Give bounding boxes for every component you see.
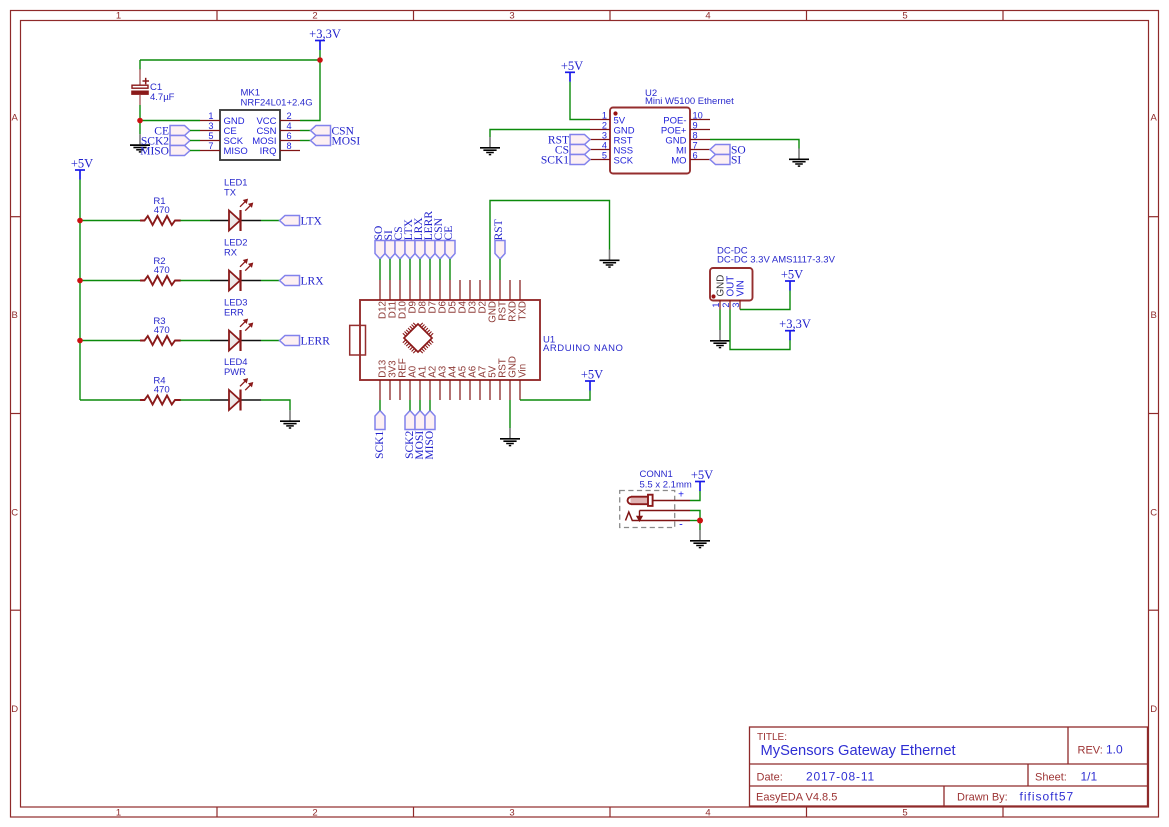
net flag CE at MK1 pin 3 <box>154 126 190 138</box>
wire rail to R1 <box>80 220 140 222</box>
U1 top pin D3 stub <box>469 280 471 300</box>
wire LERR flag to U1 D7 <box>429 259 431 280</box>
U2 pin 5 SCK stub <box>590 159 610 161</box>
net flag SO at U1 D12 <box>373 226 385 259</box>
U2 pin 10 POE- stub <box>690 119 710 121</box>
LED LED4 PWR <box>210 379 261 411</box>
U1 top pin D5 stub <box>449 280 451 300</box>
net flag SCK2 at MK1 pin 5 <box>141 136 190 148</box>
U1 top pin D4 stub <box>459 280 461 300</box>
net flag CS at U2 pin 4 <box>555 145 590 157</box>
wire SCK2 flag to MK1 pin 5 <box>190 140 200 142</box>
U1 top pin GND stub <box>489 280 491 300</box>
wire MK1 pin 4 to CSN flag <box>300 130 311 132</box>
svg-text:LRX: LRX <box>301 276 325 288</box>
svg-text:10: 10 <box>693 110 703 120</box>
U1 bottom pin A7 stub <box>479 380 481 400</box>
svg-text:A: A <box>12 113 19 124</box>
svg-text:REV:: REV: <box>1078 745 1103 757</box>
wire U1 pin to SCK2 flag <box>409 400 411 411</box>
U1 bottom pin Vin stub <box>519 380 521 400</box>
svg-text:SCK1: SCK1 <box>374 431 386 459</box>
net flag CSN at U1 D6 <box>433 217 445 259</box>
U1 top pin RXD stub <box>509 280 511 300</box>
svg-text:2: 2 <box>312 808 317 819</box>
wire SO flag to U1 D12 <box>379 259 381 280</box>
svg-text:1/1: 1/1 <box>1081 770 1098 784</box>
svg-text:4: 4 <box>705 808 710 819</box>
U1 top pin D6 stub <box>439 280 441 300</box>
wire +3.3V stem to junction <box>319 50 321 60</box>
U1 bottom pin A5 stub <box>459 380 461 400</box>
wire CE flag to MK1 pin 3 <box>190 130 200 132</box>
U2 pin 2 GND stub <box>590 129 610 131</box>
DC-DC pin 3 stub <box>739 300 741 310</box>
svg-text:8: 8 <box>693 130 698 140</box>
resistor R2 leads <box>140 280 145 282</box>
wire C1 bottom to GND node <box>139 105 141 121</box>
svg-text:5: 5 <box>208 131 213 141</box>
U1 bottom pin A2 stub <box>429 380 431 400</box>
junction +5V rail at y=280.5 <box>77 278 83 284</box>
svg-text:NRF24L01+2.4G: NRF24L01+2.4G <box>241 97 313 108</box>
U1 top pin D8 stub <box>419 280 421 300</box>
wire VCC node down to MK1 pin 2 <box>300 60 320 121</box>
svg-text:1: 1 <box>116 808 121 819</box>
svg-text:3: 3 <box>208 121 213 131</box>
wire U1 GND (bottom) to ground <box>509 400 511 428</box>
LED LED2 RX <box>210 260 261 292</box>
CONN1 switch contact upper <box>640 510 691 512</box>
LED LED3 ERR <box>210 320 261 352</box>
svg-text:+: + <box>678 490 684 501</box>
ground under DC-DC <box>710 330 730 348</box>
wire top rail C1 to VCC node <box>140 59 320 61</box>
junction CONN1 minus node <box>697 518 703 524</box>
net flag SI at U1 D11 <box>383 230 395 259</box>
svg-text:4: 4 <box>602 140 607 150</box>
net flag RST at U2 pin 3 <box>548 135 590 147</box>
svg-text:B: B <box>12 310 18 321</box>
svg-text:5: 5 <box>602 150 607 160</box>
U1 top pin RST stub <box>499 280 501 300</box>
svg-text:5: 5 <box>902 11 907 22</box>
wire U2 pin 8 GND to ground <box>710 140 799 149</box>
svg-text:PWR: PWR <box>224 366 246 377</box>
U1 bottom pin 5V stub <box>489 380 491 400</box>
wire R4 to LED4 <box>181 399 211 401</box>
wire +5V to U2 pin 1 <box>570 82 590 120</box>
svg-text:Drawn By:: Drawn By: <box>957 792 1008 804</box>
net flag LTX at U1 D9 <box>403 218 415 259</box>
svg-text:3: 3 <box>509 808 514 819</box>
svg-text:VIN: VIN <box>736 280 747 296</box>
wire U1 D13 to SCK1 flag <box>379 400 381 411</box>
DC-DC pin 1 stub <box>719 300 721 310</box>
net flag MISO at MK1 pin 7 <box>140 146 190 158</box>
wire rail to R2 <box>80 280 140 282</box>
MK1 pin 8 IRQ stub <box>280 150 300 152</box>
U2 pin 7 MI stub <box>690 149 710 151</box>
svg-text:2: 2 <box>721 303 731 308</box>
svg-text:4: 4 <box>287 121 292 131</box>
svg-text:LTX: LTX <box>301 216 323 228</box>
net flag SI at U2 pin 6 <box>710 155 741 167</box>
wire LED4 to ground <box>261 400 290 410</box>
MK1 pin 4 CSN stub <box>280 130 300 132</box>
U1 bottom pin A3 stub <box>439 380 441 400</box>
wire DC-DC GND to ground <box>719 310 721 331</box>
svg-text:8: 8 <box>287 141 292 151</box>
U1 top pin D7 stub <box>429 280 431 300</box>
svg-text:MO: MO <box>671 155 686 166</box>
svg-text:SCK: SCK <box>614 155 634 166</box>
frame column numbers bottom <box>116 808 908 819</box>
junction +5V rail at y=220.5 <box>77 218 83 224</box>
LED LED1 TX <box>210 200 261 232</box>
wire CONN1 + to +5V <box>690 491 700 501</box>
resistor R3 470 <box>140 336 181 345</box>
svg-text:1: 1 <box>116 11 121 22</box>
net flag MISO at U1 A2 <box>424 411 436 460</box>
power flag +3.3V (top) <box>309 27 341 50</box>
svg-text:MISO: MISO <box>140 146 169 158</box>
svg-text:D: D <box>1150 704 1157 715</box>
wire rail to R4 <box>80 399 140 401</box>
junction node C1/GND <box>137 118 143 124</box>
wire CONN1 pin2 upper to node <box>690 511 700 521</box>
wire GND node down to ground <box>139 121 141 135</box>
wire U1 GND (top) to ground <box>490 201 610 281</box>
ground under C1 <box>130 134 150 152</box>
power flag +5V (U1 Vin) <box>581 368 603 391</box>
svg-text:MISO: MISO <box>224 146 248 157</box>
svg-text:2017-08-11: 2017-08-11 <box>806 770 875 784</box>
net flag LTX at LED1 <box>280 216 323 228</box>
resistor R2 470 <box>140 276 181 285</box>
CONN1 + pin <box>653 500 690 502</box>
svg-text:DC-DC 3.3V AMS1117-3.3V: DC-DC 3.3V AMS1117-3.3V <box>717 254 836 265</box>
frame column numbers top <box>116 11 908 22</box>
svg-text:470: 470 <box>154 384 170 395</box>
U1 top pin D2 stub <box>479 280 481 300</box>
U1 top pin D10 stub <box>399 280 401 300</box>
U1 top pin TXD stub <box>519 280 521 300</box>
svg-text:7: 7 <box>693 140 698 150</box>
MK1 pin 6 MOSI stub <box>280 140 300 142</box>
wire DC-DC VIN to +5V <box>740 291 790 310</box>
resistor R1 470 <box>140 216 181 225</box>
wire SI flag to U1 D11 <box>389 259 391 280</box>
svg-text:2: 2 <box>287 111 292 121</box>
net flag CS at U1 D10 <box>393 226 405 259</box>
wire LRX flag to U1 D8 <box>419 259 421 280</box>
MK1 pin 2 VCC stub <box>280 120 300 122</box>
svg-text:B: B <box>1151 310 1157 321</box>
U1 bottom pin A1 stub <box>419 380 421 400</box>
net flag LERR at LED3 <box>280 336 331 348</box>
power flag +5V (LED rail) <box>71 157 93 180</box>
U1 USB connector rectangle <box>350 325 366 355</box>
DC-DC pin 2 stub <box>729 300 731 310</box>
net flag SCK1 at U2 pin 5 <box>541 155 590 167</box>
svg-text:Date:: Date: <box>757 772 783 784</box>
resistor R3 leads <box>140 340 145 342</box>
U1 bottom pin 3V3 stub <box>389 380 391 400</box>
wire CSN flag to U1 D6 <box>439 259 441 280</box>
wire MK1 pin 6 to MOSI flag <box>300 140 311 142</box>
U1 bottom pin GND stub <box>509 380 511 400</box>
svg-text:C: C <box>1150 508 1157 519</box>
power flag +5V (U2) <box>561 59 583 82</box>
svg-text:LERR: LERR <box>301 336 331 348</box>
U2 pin 8 GND stub <box>690 139 710 141</box>
svg-text:2: 2 <box>602 120 607 130</box>
U2 pin 1 marker dot <box>613 111 617 115</box>
svg-text:RST: RST <box>493 219 505 240</box>
wire CONN1 pin2 lower to node <box>690 520 700 522</box>
net flag SCK2 at U1 A0 <box>404 411 416 459</box>
svg-text:6: 6 <box>693 150 698 160</box>
net flag LRX at LED2 <box>280 276 325 288</box>
title block <box>750 727 1148 806</box>
module MK1 NRF24L01+2.4G <box>220 110 280 160</box>
svg-text:+5V: +5V <box>781 268 803 282</box>
IC U1 ARDUINO NANO body <box>360 300 540 380</box>
svg-text:RX: RX <box>224 246 238 257</box>
power flag +5V (CONN1) <box>691 468 713 491</box>
svg-text:fifisoft57: fifisoft57 <box>1020 790 1075 804</box>
svg-text:IRQ: IRQ <box>260 146 277 157</box>
U1 bottom pin A6 stub <box>469 380 471 400</box>
frame row letters right <box>1150 113 1157 716</box>
U1 bottom pin REF stub <box>399 380 401 400</box>
ground under CONN1 <box>690 530 710 548</box>
svg-text:ARDUINO NANO: ARDUINO NANO <box>543 343 624 354</box>
svg-text:3: 3 <box>509 11 514 22</box>
wire R3 to LED3 <box>181 340 211 342</box>
svg-text:+5V: +5V <box>561 59 583 73</box>
MK1 pin 1 GND stub <box>200 120 220 122</box>
svg-text:4.7µF: 4.7µF <box>150 92 175 103</box>
junction +5V rail at y=340.5 <box>77 338 83 344</box>
svg-text:1: 1 <box>602 110 607 120</box>
svg-text:TITLE:: TITLE: <box>757 732 787 743</box>
CONN1 switch contact lower with spring <box>626 512 691 521</box>
svg-text:Mini W5100 Ethernet: Mini W5100 Ethernet <box>645 96 734 107</box>
svg-text:4: 4 <box>705 11 710 22</box>
svg-text:CE: CE <box>443 226 455 241</box>
svg-text:470: 470 <box>154 325 170 336</box>
U2 pin 9 POE+ stub <box>690 129 710 131</box>
net flag SCK1 at U1 D13 <box>374 411 386 459</box>
net flag CSN at MK1 pin 4 <box>311 126 355 138</box>
net flag LRX at U1 D8 <box>413 217 425 259</box>
svg-text:3: 3 <box>731 303 741 308</box>
MK1 pin 7 MISO stub <box>200 150 220 152</box>
svg-text:2: 2 <box>312 11 317 22</box>
svg-text:SCK1: SCK1 <box>541 155 569 167</box>
net flag SO at U2 pin 7 <box>710 145 746 157</box>
svg-text:+5V: +5V <box>581 368 603 382</box>
U2 pin 3 RST stub <box>590 139 610 141</box>
U2 pin 6 MO stub <box>690 159 710 161</box>
wire U1 Vin to +5V <box>520 391 590 401</box>
wire CONN1 minus to ground <box>699 521 701 531</box>
net flag RST at U1 RST (top) <box>493 219 505 259</box>
connector CONN1 dashed outline <box>620 491 675 528</box>
resistor R4 leads <box>140 399 145 401</box>
svg-text:ERR: ERR <box>224 306 244 317</box>
wire GND node to MK1 pin 1 <box>140 120 200 122</box>
svg-text:470: 470 <box>154 265 170 276</box>
svg-text:5: 5 <box>902 808 907 819</box>
frame row letters left <box>11 113 18 716</box>
wire CE flag to U1 D5 <box>449 259 451 280</box>
svg-text:D: D <box>11 704 18 715</box>
ground under U1 <box>500 428 520 446</box>
MK1 pin 3 CE stub <box>200 130 220 132</box>
svg-text:5.5 x 2.1mm: 5.5 x 2.1mm <box>640 480 692 491</box>
capacitor C1 4.7uF <box>132 60 149 105</box>
svg-text:+5V: +5V <box>71 157 93 171</box>
CONN1 barrel jack symbol <box>628 495 653 506</box>
wire LTX flag to U1 D9 <box>409 259 411 280</box>
DC-DC pin 1 marker dot <box>711 294 715 298</box>
ground right of U2 <box>789 149 809 167</box>
U1 top pin D9 stub <box>409 280 411 300</box>
CONN1 switch arrow <box>637 511 642 521</box>
net flag MOSI at U1 A1 <box>414 411 426 460</box>
U1 bottom pin A4 stub <box>449 380 451 400</box>
net flag LERR at U1 D7 <box>423 211 435 259</box>
MK1 pin 5 SCK stub <box>200 140 220 142</box>
svg-text:1: 1 <box>208 111 213 121</box>
svg-text:1.0: 1.0 <box>1106 743 1123 757</box>
net flag CE at U1 D5 <box>443 226 455 259</box>
wire R1 to LED1 <box>181 220 211 222</box>
svg-text:9: 9 <box>693 120 698 130</box>
resistor R1 leads <box>140 220 145 222</box>
svg-text:TXD: TXD <box>518 301 529 321</box>
U1 top pin D12 stub <box>379 280 381 300</box>
svg-text:SI: SI <box>731 155 741 167</box>
svg-text:+5V: +5V <box>691 468 713 482</box>
U1 QFP chip diamond <box>403 323 433 353</box>
resistor R4 470 <box>140 396 181 405</box>
ground left of U2 <box>480 137 500 155</box>
svg-text:MySensors Gateway Ethernet: MySensors Gateway Ethernet <box>761 743 956 759</box>
svg-text:C: C <box>11 508 18 519</box>
svg-text:CONN1: CONN1 <box>640 469 673 480</box>
wire rail to R3 <box>80 340 140 342</box>
regulator DC-DC AMS1117-3.3V body <box>710 268 753 301</box>
wire DC-DC OUT to +3.3V <box>730 310 790 350</box>
net flag MOSI at MK1 pin 6 <box>311 136 361 148</box>
svg-text:MOSI: MOSI <box>332 136 361 148</box>
U1 bottom pin A0 stub <box>409 380 411 400</box>
svg-text:Vin: Vin <box>518 364 529 378</box>
svg-text:-: - <box>679 519 683 531</box>
power flag +5V (DC-DC in) <box>781 268 803 291</box>
svg-text:TX: TX <box>224 186 237 197</box>
junction node +3.3V <box>317 57 323 63</box>
svg-text:3: 3 <box>602 130 607 140</box>
svg-text:1: 1 <box>711 303 721 308</box>
svg-text:MISO: MISO <box>424 431 436 460</box>
power flag +3.3V (DC-DC out) <box>779 317 811 340</box>
wire U2 pin 2 GND to ground <box>490 130 590 138</box>
U2 pin 1 5V stub <box>590 119 610 121</box>
svg-text:A: A <box>1151 113 1158 124</box>
U1 bottom pin D13 stub <box>379 380 381 400</box>
wire RST flag to U1 RST <box>499 259 501 280</box>
wire +5V rail vertical <box>79 180 81 401</box>
svg-text:+3,3V: +3,3V <box>309 27 341 41</box>
wire CS flag to U1 D10 <box>399 259 401 280</box>
svg-text:7: 7 <box>208 141 213 151</box>
U1 top pin D11 stub <box>389 280 391 300</box>
U1 bottom pin RST stub <box>499 380 501 400</box>
wire LED1 to LTX flag <box>261 220 280 222</box>
svg-text:6: 6 <box>287 131 292 141</box>
ground right of U1 top <box>600 250 620 268</box>
U2 pin 4 NSS stub <box>590 149 610 151</box>
wire LED2 to LRX flag <box>261 280 280 282</box>
wire R2 to LED2 <box>181 280 211 282</box>
wire U1 pin to MISO flag <box>429 400 431 411</box>
wire U1 pin to MOSI flag <box>419 400 421 411</box>
svg-text:470: 470 <box>154 205 170 216</box>
svg-text:EasyEDA V4.8.5: EasyEDA V4.8.5 <box>756 792 837 804</box>
module U2 Mini W5100 Ethernet body <box>610 108 690 174</box>
wire LED3 to LERR flag <box>261 340 280 342</box>
ground under LED4 <box>280 410 300 428</box>
svg-text:Sheet:: Sheet: <box>1035 772 1067 784</box>
svg-text:+3,3V: +3,3V <box>779 317 811 331</box>
wire MISO flag to MK1 pin 7 <box>190 150 200 152</box>
